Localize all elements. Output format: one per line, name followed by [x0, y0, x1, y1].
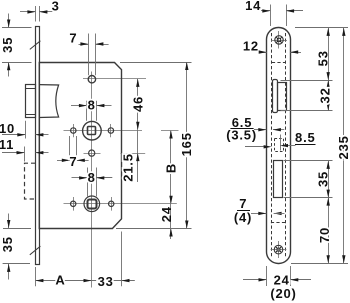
svg-text:8.5: 8.5	[295, 130, 315, 145]
dim A arrows	[35, 279, 43, 282]
svg-text:11: 11	[0, 137, 14, 152]
top screw hole cross	[276, 37, 281, 42]
dim 10 line+arrows	[2, 134, 25, 136]
svg-text:35: 35	[0, 37, 15, 53]
wire main vertical centerline left view	[91, 72, 93, 288]
wire middle hole centerline ext for 21.5	[121, 153, 146, 155]
latch bolt head bevel top	[25, 88, 35, 90]
svg-text:7: 7	[69, 30, 77, 45]
svg-text:(3.5): (3.5)	[226, 127, 257, 142]
dim 32 line+arrows	[328, 80, 330, 111]
faceplate front outline	[267, 28, 291, 264]
wire middle hole horizontal centerline	[84, 153, 101, 155]
upper follower square	[88, 127, 96, 135]
dim 11 line+arrows	[2, 152, 25, 154]
dim 8 lower line+arrows	[72, 177, 88, 179]
dim 8 upper ext lines	[86, 101, 88, 121]
dim 33 arrow	[122, 279, 130, 282]
svg-text:3: 3	[52, 0, 60, 13]
top fixing hole	[88, 76, 95, 83]
svg-text:235: 235	[336, 135, 350, 159]
upper-left fixing hole	[71, 128, 76, 133]
svg-text:35: 35	[315, 171, 330, 187]
dashed case bottom edge behind plate	[271, 222, 286, 224]
svg-text:32: 32	[318, 87, 333, 103]
dim 6.5 arrows	[254, 129, 266, 131]
dim 12 line+arrows	[259, 52, 267, 54]
dim 70 line+arrows	[328, 198, 330, 264]
deadbolt window	[274, 161, 283, 198]
svg-text:10: 10	[0, 121, 15, 136]
svg-text:8: 8	[88, 98, 96, 113]
dim 7 lower ext lines	[69, 136, 71, 157]
svg-text:14: 14	[245, 0, 261, 13]
ref line plate top	[295, 27, 348, 29]
dim 8 upper line+arrows	[71, 105, 87, 107]
wire upper follower horizontal centerline	[64, 130, 143, 132]
latch bolt head front	[26, 85, 36, 118]
svg-text:12: 12	[243, 38, 259, 53]
faceplate dashed inner line right	[285, 33, 287, 258]
svg-text:46: 46	[131, 96, 146, 112]
dim 165 line+arrows	[186, 62, 188, 229]
dim 14 line+arrows	[261, 10, 270, 12]
bottom screw hole	[274, 245, 283, 254]
svg-text:7: 7	[69, 154, 77, 169]
svg-text:7: 7	[239, 196, 247, 211]
dim A 33 ext lines	[35, 267, 37, 286]
dashed case top edge behind plate	[272, 62, 286, 64]
dim 7 top ext lines	[88, 34, 90, 76]
dim 21.5 line+arrow	[137, 130, 139, 182]
svg-text:(20): (20)	[270, 286, 296, 301]
wire upper-right hole vertical centerline	[110, 124, 112, 137]
wire upper follower centerline ext for B	[161, 130, 179, 132]
dim A 33 line	[35, 280, 134, 282]
dim 7 top line+arrows	[79, 44, 89, 46]
dim 11 ext line	[24, 147, 26, 162]
ref line deadbolt window top	[284, 160, 333, 162]
dim 3 line+arrows	[20, 11, 35, 13]
top screw hole	[275, 36, 283, 44]
dim 24 plate line+arrows	[243, 279, 267, 281]
latch bolt body with break line	[39, 85, 58, 118]
lock case outline	[39, 63, 121, 229]
dim 24 plate ext lines	[266, 266, 268, 286]
lower follower circle	[84, 196, 100, 212]
bottom screw hole centerlines	[278, 241, 280, 258]
wire upper-left hole vertical centerline	[73, 124, 75, 137]
ref line deadbolt window bottom	[284, 197, 333, 199]
dim 235 line+arrows	[343, 28, 345, 263]
svg-text:35: 35	[0, 236, 15, 252]
svg-text:33: 33	[98, 274, 114, 289]
svg-text:53: 53	[315, 50, 330, 66]
bottom screw hole cross	[276, 247, 281, 252]
dim B line+arrows	[170, 131, 172, 204]
dim 35 right line+arrows	[328, 161, 330, 198]
svg-text:8: 8	[88, 170, 96, 185]
latch faceplate lip bar	[273, 80, 278, 113]
wire lower-left hole vertical centerline	[73, 197, 75, 211]
faceplate break slash lower	[30, 246, 41, 255]
deadbolt dashed outline	[25, 163, 36, 199]
dim 24 line+arrow	[170, 204, 172, 239]
lower-left fixing hole	[71, 201, 76, 206]
svg-text:165: 165	[179, 132, 194, 156]
dim 14 ext lines	[270, 5, 272, 27]
dim 7 right arrows	[251, 213, 266, 215]
dim 3 ext lines	[35, 6, 37, 22]
svg-text:A: A	[55, 273, 65, 288]
upper-right fixing hole	[108, 128, 113, 133]
svg-text:B: B	[164, 163, 179, 173]
latch window	[278, 83, 287, 111]
dim 35 bottom ext lines	[3, 228, 31, 230]
dashed spindle square	[275, 139, 284, 152]
svg-text:(4): (4)	[234, 210, 252, 225]
dim 8 lower ext lines	[87, 168, 89, 197]
latch bolt head bevel bottom	[25, 114, 35, 116]
lower-right fixing hole	[109, 201, 114, 206]
top screw hole centerlines	[278, 31, 280, 49]
svg-text:70: 70	[317, 227, 332, 243]
dim 46 line+arrows	[137, 79, 139, 130]
dim 8.5 ext line	[280, 135, 282, 151]
faceplate dashed inner line left	[271, 33, 273, 258]
svg-text:24: 24	[159, 206, 174, 222]
dim 165 ext lines	[120, 62, 192, 64]
ref line latch window bottom	[281, 110, 333, 112]
wire lower follower horizontal centerline	[64, 203, 177, 205]
dim 10 ext line	[25, 121, 27, 139]
wire lower-right hole vertical centerline	[111, 197, 113, 211]
dim 7 lower line+arrows	[57, 160, 70, 162]
wire top hole horizontal centerline + 46 ref	[83, 78, 146, 80]
ref line latch window top	[281, 80, 333, 82]
upper follower circle	[83, 121, 102, 140]
svg-text:21.5: 21.5	[121, 153, 136, 182]
faceplate break slash upper	[30, 41, 41, 50]
ref line plate bottom	[291, 263, 348, 265]
middle fixing hole	[89, 150, 95, 156]
dim 35 top line+arrows	[8, 14, 10, 28]
faceplate side strip	[36, 27, 40, 265]
dim 8.5 arrows	[245, 146, 264, 148]
dim 53 line+arrows	[328, 28, 330, 80]
lower follower square	[88, 200, 97, 209]
dim 35 top ext lines	[2, 27, 32, 29]
dim 35 bottom line+arrows	[8, 214, 10, 229]
